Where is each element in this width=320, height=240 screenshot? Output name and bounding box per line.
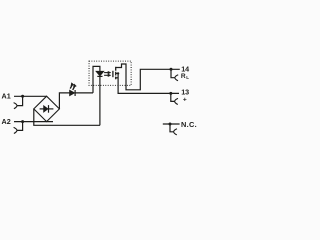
svg-text:+: + <box>183 96 187 103</box>
diode inside bridge <box>40 108 44 110</box>
wire bridge minus return <box>34 109 100 125</box>
terminal clamp N.C. <box>170 124 174 132</box>
svg-text:N.C.: N.C. <box>181 120 197 129</box>
wire A2 to bridge bottom <box>14 121 53 123</box>
node A1 junction dot <box>21 95 24 98</box>
opto light arrows <box>104 71 111 77</box>
svg-text:R: R <box>181 73 186 80</box>
node terminal 14 dot <box>170 68 173 71</box>
node N.C. dot <box>169 123 172 126</box>
wire bridge plus up <box>59 93 69 109</box>
node terminal 13 dot <box>169 92 172 95</box>
svg-text:L: L <box>186 75 189 80</box>
MOSFET drain wire to terminal 14 <box>116 64 180 90</box>
terminal clamp 13 <box>171 93 175 101</box>
svg-text:A2: A2 <box>2 117 11 126</box>
svg-text:A1: A1 <box>2 91 11 100</box>
optocoupler U1 dashed box <box>89 61 131 85</box>
opto LED D1 (pointing down) <box>96 71 104 76</box>
wire opto LED cathode down to return <box>99 76 101 125</box>
wire into opto LED anode <box>93 66 100 93</box>
wire A1 to bridge top <box>14 95 47 97</box>
terminal clamp A1 <box>17 96 23 105</box>
wire LED to optocoupler <box>75 92 93 94</box>
MOSFET source stub <box>116 77 118 79</box>
MOSFET body stub <box>116 72 118 74</box>
wire source to terminal 13 <box>118 73 179 93</box>
bridge rectifier B1 diamond <box>34 96 60 121</box>
terminal clamp 14 <box>171 69 175 77</box>
node body-source dot <box>117 72 119 74</box>
MOSFET channel segments <box>115 67 117 71</box>
wire N.C. stub <box>163 123 180 125</box>
svg-text:13: 13 <box>181 88 189 97</box>
node A2 junction dot <box>21 120 24 123</box>
terminal clamp A2 <box>17 122 23 131</box>
LED indicator diode <box>70 90 75 96</box>
LED emission arrows <box>70 83 76 90</box>
MOSFET Q1 gate bar <box>112 71 114 77</box>
